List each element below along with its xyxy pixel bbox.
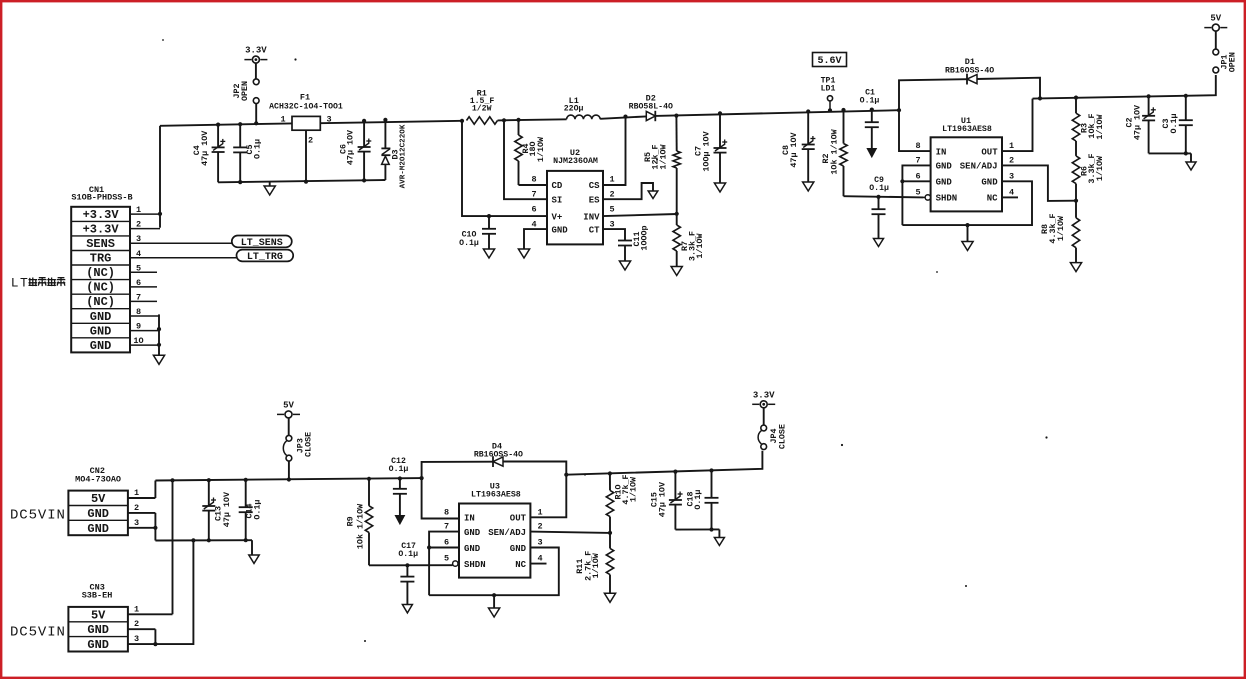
CN1 pin stubs and pin numbers 1-10 (130, 205, 237, 346)
jumper JP4 (CLOSE) (758, 424, 787, 449)
svg-text:F1: F1 (300, 93, 310, 103)
node R9 junction (367, 477, 371, 481)
wire U3 GND pins 7,6 tie (429, 532, 459, 596)
svg-text:OPEN: OPEN (1228, 52, 1238, 72)
svg-text:1O: 1O (133, 336, 143, 346)
resistor R11 2.7k 1/10W (575, 533, 614, 593)
node R2 junction (841, 108, 845, 112)
node C4 junction (216, 123, 220, 127)
power 3.3V node (JP4) (752, 390, 775, 408)
svg-text:LT_TRG: LT_TRG (247, 252, 283, 263)
capacitor C5 0.1u (233, 124, 262, 182)
svg-text:7: 7 (444, 522, 449, 532)
node INV R5 R7 junction (675, 212, 679, 216)
wire 3.3V to JP4 (763, 408, 765, 425)
svg-text:SEN/ADJ: SEN/ADJ (960, 162, 998, 172)
label DC5VIN (CN3) (10, 625, 66, 641)
capacitor C9 0.1u (869, 176, 889, 238)
ground below C8 (803, 182, 814, 191)
power 3.3V node (top, feeds JP2) (244, 46, 267, 64)
CN3 pin stubs and numbers (128, 604, 173, 644)
node rail CN3-gnd junction (191, 538, 195, 542)
svg-text:SI: SI (552, 195, 563, 205)
svg-text:1: 1 (537, 507, 542, 517)
wire JP2 to 3.3V bus (255, 104, 257, 124)
ground below R8 (1070, 263, 1081, 272)
wire C15C18 gnd stem (718, 529, 720, 537)
svg-text:47μ 1OV: 47μ 1OV (346, 129, 356, 165)
svg-text:(NC): (NC) (86, 281, 115, 295)
svg-text:RB16OSS-4O: RB16OSS-4O (474, 451, 523, 460)
svg-text:SEN/ADJ: SEN/ADJ (488, 528, 526, 538)
ground below U1 (962, 242, 973, 251)
node R10 R11 junction (608, 531, 612, 535)
wire SHDN rail (844, 196, 924, 197)
svg-text:GND: GND (90, 324, 112, 338)
node U1 IN junction (897, 108, 901, 112)
node R10 junction (608, 471, 612, 475)
wire U3 gnd stem (493, 595, 495, 608)
node D1 loop junction (1038, 96, 1042, 100)
svg-text:IN: IN (936, 147, 947, 157)
svg-text:1: 1 (136, 205, 141, 215)
ground below C7 (714, 183, 725, 192)
svg-text:4: 4 (537, 554, 542, 564)
capacitor C18 0.1u (686, 471, 719, 530)
svg-text:4: 4 (1009, 187, 1014, 197)
svg-text:INV: INV (583, 212, 600, 222)
svg-text:GND: GND (87, 522, 109, 536)
svg-text:CD: CD (552, 181, 563, 191)
svg-text:RBO58L-4O: RBO58L-4O (629, 103, 673, 112)
svg-text:SHDN: SHDN (936, 194, 958, 204)
svg-text:DC5VIN: DC5VIN (10, 507, 66, 523)
node CN2 pin3 junction (153, 526, 157, 530)
net flag LT_SENS (CN1 pin3) (232, 236, 292, 249)
U3 SHDN bubble (453, 561, 458, 566)
svg-text:7: 7 (916, 155, 921, 165)
power 5V node (JP3) (277, 400, 300, 418)
label LT expansion board (LT拡張基板) (11, 276, 66, 291)
capacitor C1 0.1u (860, 88, 880, 148)
wire CN1 pins 8,9,10 to ground (158, 314, 160, 355)
capacitor C6 47u 10V (339, 121, 372, 181)
op-amp U3 LT1963AES8 (LDO regulator) (444, 482, 543, 578)
svg-text:7: 7 (136, 292, 141, 302)
node C14 junction (244, 478, 248, 482)
node C18 junction (709, 468, 713, 472)
wire rail gnd stem (251, 540, 253, 555)
svg-text:(NC): (NC) (86, 266, 115, 280)
svg-text:LT1963AES8: LT1963AES8 (471, 491, 521, 500)
node rail C14 junction (244, 538, 248, 542)
wire lower ground rail (155, 539, 252, 541)
varistor D3 AVR-M2012C220K (381, 120, 407, 189)
wire JP3 to bus (288, 461, 290, 479)
svg-text:GND: GND (464, 544, 481, 554)
capacitor C7 100u 10V (694, 113, 728, 183)
svg-text:1/1OW: 1/1OW (591, 552, 601, 578)
resistor R3 10k 1/10W (1072, 98, 1105, 141)
connector CN3 S3B-EH (68, 582, 128, 652)
ground below C10 (483, 249, 494, 258)
svg-text:CS: CS (589, 181, 600, 191)
capacitor C12 0.1u (389, 457, 409, 516)
ground below R11 (604, 593, 615, 602)
svg-text:DC5VIN: DC5VIN (10, 625, 66, 641)
svg-text:4: 4 (136, 249, 141, 259)
node JP3 junction (287, 477, 291, 481)
ground (arrow) below C1 (867, 149, 876, 158)
svg-text:2: 2 (134, 503, 139, 513)
svg-text:5: 5 (444, 554, 449, 564)
U1 SHDN bubble (925, 195, 930, 200)
ground below C2 C3 (1186, 162, 1196, 170)
wire lower 3.3V bus (566, 451, 762, 475)
svg-text:(NC): (NC) (86, 295, 115, 309)
wire SHDN bubble stub (924, 196, 926, 198)
svg-text:NJM236OAM: NJM236OAM (553, 157, 598, 166)
wire U1 pin6 stub (902, 180, 930, 182)
node CN3 pin3 junction (153, 642, 157, 646)
wire D1 bypass loop (899, 78, 1040, 111)
svg-text:1: 1 (134, 604, 139, 614)
svg-text:O.1μ: O.1μ (459, 239, 479, 248)
svg-text:3: 3 (537, 538, 542, 548)
svg-text:OPEN: OPEN (240, 81, 250, 101)
capacitor C3 0.1u (1161, 96, 1193, 154)
node U3 pin6 tie junction (427, 545, 431, 549)
label DC5VIN (CN2) (10, 507, 66, 523)
node CN1 pin9 junction (157, 327, 161, 331)
svg-text:1: 1 (1009, 141, 1014, 151)
svg-text:5: 5 (916, 187, 921, 197)
svg-text:SENS: SENS (86, 237, 115, 251)
wire U3 bottom ground loop (429, 548, 559, 596)
wire 3.3V bus right of F1 (320, 121, 462, 123)
svg-text:O.1μ: O.1μ (1169, 113, 1179, 133)
svg-text:3: 3 (134, 634, 139, 644)
svg-text:5.6V: 5.6V (817, 56, 841, 67)
wire R1-left to U2 V+ rail (462, 121, 547, 216)
ground (arrow) below C12 (395, 516, 404, 525)
svg-text:7: 7 (531, 190, 536, 200)
wire U2 INV to R5/R7 (603, 214, 677, 216)
svg-text:1/1OW: 1/1OW (536, 136, 546, 162)
wire U1 GND pins 7,6 tie (902, 165, 930, 225)
node R6 R8 SEN junction (1074, 199, 1078, 203)
node R1 right junction (502, 118, 506, 122)
diode D1 RB160SS-40 (945, 57, 994, 84)
wire bus R1 to L1 (498, 119, 567, 120)
wire U2 GND pin4 (524, 229, 547, 249)
svg-text:3.3V: 3.3V (753, 390, 775, 400)
CN2 pin stubs and numbers (128, 488, 155, 528)
wire 3.3V bus left segment (160, 123, 292, 125)
svg-text:GND: GND (981, 178, 998, 188)
wire U3 NC stub (530, 563, 546, 565)
node U3 IN junction (420, 476, 424, 480)
svg-text:2: 2 (1009, 155, 1014, 165)
connector CN1 S10B-PHDSS-B (71, 185, 132, 353)
svg-text:6: 6 (136, 278, 141, 288)
node CS vertical junction (623, 115, 627, 119)
svg-text:1OOOp: 1OOOp (640, 225, 650, 250)
svg-text:GND: GND (87, 638, 109, 652)
svg-text:GND: GND (90, 339, 112, 353)
wire U3 OUT to 3.3V bus (530, 475, 566, 518)
node R1 left junction (460, 119, 464, 123)
diode D4 RB160SS-40 (474, 442, 523, 468)
svg-text:CLOSE: CLOSE (777, 424, 787, 449)
svg-text:S1OB-PHDSS-B: S1OB-PHDSS-B (71, 193, 132, 203)
svg-text:CT: CT (589, 225, 600, 235)
svg-text:5V: 5V (91, 608, 106, 622)
test point TP1 LD1 (821, 77, 836, 111)
wire D4 bypass loop (422, 461, 567, 478)
capacitor C14 0.1u (239, 480, 263, 540)
capacitor C8 47u 10V (781, 112, 816, 183)
jumper JP2 (OPEN) (232, 79, 259, 104)
wire rail ground stem (269, 182, 271, 186)
svg-text:1/1OW: 1/1OW (1095, 113, 1105, 139)
svg-text:47μ 1OV: 47μ 1OV (789, 131, 799, 167)
svg-text:22Oμ: 22Oμ (564, 105, 584, 114)
node U3 OUT junction (564, 473, 568, 477)
label 5.6V (boxed net label) (813, 53, 847, 68)
svg-text:ACH32C-1O4-TOO1: ACH32C-1O4-TOO1 (269, 103, 343, 112)
svg-text:5V: 5V (91, 492, 106, 506)
wire U1 SEN/ADJ to divider (1002, 165, 1076, 201)
svg-text:5: 5 (136, 263, 141, 273)
svg-text:1: 1 (280, 115, 285, 125)
node C3 junction (1184, 94, 1188, 98)
node C6 junction (362, 119, 366, 123)
node rail C6 junction (362, 178, 366, 182)
wire U2 ES to ground (603, 183, 653, 199)
wire CN2 pin1 up to 5V bus (154, 481, 156, 499)
svg-text:+3.3V: +3.3V (83, 208, 120, 222)
node U3 ground loop center (492, 593, 496, 597)
wire U3 bus into IN (422, 478, 459, 518)
svg-text:GND: GND (552, 225, 569, 235)
capacitor C13 47u 10V (202, 480, 232, 540)
op-amp U1 LT1963AES8 (LDO regulator) (916, 116, 1015, 211)
svg-text:3: 3 (1009, 171, 1014, 181)
wire U1 NC stub (1002, 196, 1018, 198)
node rail F1 pin2 junction (304, 180, 308, 184)
svg-text:1OOμ 1OV: 1OOμ 1OV (702, 130, 712, 171)
ground at U2 ES (648, 191, 658, 199)
resistor R5 12k 1/10W (643, 116, 680, 214)
resistor R2 10k 1/10W (821, 110, 847, 196)
svg-text:O.1μ: O.1μ (252, 500, 262, 520)
svg-text:V+: V+ (552, 212, 563, 222)
wire lower 5V bus (155, 478, 421, 480)
wire U1 OUT to 5.6V bus (1002, 99, 1033, 152)
node C2 junction (1147, 94, 1151, 98)
wire U1 gnd stem (967, 225, 969, 241)
connector CN2 MO4-730A0 (68, 466, 128, 536)
capacitor C11 1000p (618, 225, 650, 261)
node R4 top junction (516, 118, 520, 122)
wire U1 bottom ground loop (902, 181, 1032, 225)
svg-text:S3B-EH: S3B-EH (82, 591, 113, 601)
svg-text:47μ 1OV: 47μ 1OV (200, 130, 210, 166)
ground below CN1 (153, 355, 164, 364)
svg-text:3.3V: 3.3V (245, 46, 267, 56)
node U1 pin6 tie junction (900, 179, 904, 183)
svg-text:6: 6 (916, 171, 921, 181)
svg-text:IN: IN (464, 514, 475, 524)
wire 3.3V to JP2 (255, 63, 257, 79)
node rail C5 junction (238, 180, 242, 184)
node C5 junction (238, 122, 242, 126)
resistor R7 3.3k 1/10W (673, 214, 705, 267)
capacitor C4 47u 10V (192, 125, 225, 183)
svg-text:LT_SENS: LT_SENS (241, 238, 283, 249)
node CN1 pin1 junction (158, 212, 162, 216)
svg-text:TRG: TRG (90, 252, 112, 266)
svg-text:47μ 1OV: 47μ 1OV (657, 481, 667, 517)
capacitor C10 0.1u (459, 216, 496, 249)
svg-text:1: 1 (134, 488, 139, 498)
svg-text:LD1: LD1 (821, 85, 836, 94)
ground lower rail (249, 555, 259, 563)
svg-text:CLOSE: CLOSE (304, 432, 314, 457)
node C7 junction (718, 111, 722, 115)
svg-text:MO4-73OAO: MO4-73OAO (75, 474, 121, 484)
node CN1 pin10 junction (157, 343, 161, 347)
svg-text:3: 3 (609, 220, 614, 230)
ground below U2 pin4 (518, 249, 529, 258)
svg-text:NC: NC (515, 560, 526, 570)
wire U3 SHDN rail (369, 564, 453, 566)
svg-text:2: 2 (609, 190, 614, 200)
svg-text:O.1μ: O.1μ (860, 97, 880, 106)
filter F1 ACH32C-104-T001 (269, 93, 343, 146)
capacitor C15 47u 10V (650, 472, 683, 530)
svg-text:O.1μ: O.1μ (389, 465, 409, 474)
wire R4 to U2 CD (519, 184, 548, 186)
resistor R1 1.5 F 1/2W (467, 89, 498, 125)
svg-text:SHDN: SHDN (464, 560, 486, 570)
svg-text:6: 6 (531, 205, 536, 215)
resistor R6 3.3k 1/10W (1072, 141, 1105, 201)
svg-text:2: 2 (308, 136, 313, 146)
jumper JP1 (OPEN) (1213, 49, 1238, 73)
wire bus L1 to D2 (600, 116, 646, 118)
ground below R7 (671, 267, 682, 276)
wire CN3 pin1 up to bus (172, 480, 174, 614)
svg-text:6: 6 (444, 538, 449, 548)
svg-text:GND: GND (510, 544, 527, 554)
op-amp U2 NJM2360AM (switching regulator) (531, 148, 614, 244)
ground below C11 (619, 261, 630, 270)
wire U3 pin6 stub (429, 547, 459, 549)
node D3 junction (383, 118, 387, 122)
inductor L1 220u (564, 96, 600, 119)
node rail C13 junction (207, 538, 211, 542)
svg-text:ES: ES (589, 195, 600, 205)
svg-text:47μ 1OV: 47μ 1OV (1133, 104, 1143, 140)
svg-text:OUT: OUT (981, 147, 998, 157)
svg-text:3: 3 (134, 518, 139, 528)
svg-text:1/1OW: 1/1OW (1056, 215, 1066, 241)
svg-text:RB16OSS-4O: RB16OSS-4O (945, 66, 994, 75)
node D2 cathode junction (674, 114, 678, 118)
resistor R8 4.3k 1/10W (1040, 201, 1080, 263)
svg-text:1/1OW: 1/1OW (658, 143, 668, 169)
power 5V node (top right) (1204, 14, 1227, 32)
resistor R9 10k 1/10W (345, 479, 372, 566)
node C17 junction (405, 563, 409, 567)
svg-text:GND: GND (87, 507, 109, 521)
svg-text:OUT: OUT (510, 514, 527, 524)
svg-text:8: 8 (531, 175, 536, 185)
jumper JP3 (CLOSE) (283, 432, 313, 461)
wire C2 C3 ground rail (1149, 152, 1191, 154)
ground below C9 (874, 239, 884, 247)
svg-text:1Ok 1/1OW: 1Ok 1/1OW (829, 128, 839, 174)
ground below C15 C18 (714, 538, 724, 546)
svg-text:1/1OW: 1/1OW (629, 476, 639, 502)
svg-text:NC: NC (987, 194, 998, 204)
wire 5V to JP3 (288, 418, 290, 435)
svg-text:O.1μ: O.1μ (693, 490, 703, 510)
node C10 junction (487, 214, 491, 218)
svg-text:8: 8 (444, 507, 449, 517)
svg-text:1/1OW: 1/1OW (1095, 155, 1105, 181)
node C12 junction (398, 476, 402, 480)
svg-text:8: 8 (916, 141, 921, 151)
wire 5.6V bus (1033, 75, 1216, 99)
ground below C17 (402, 605, 412, 613)
wire C15 C18 ground rail (675, 528, 719, 530)
capacitor C17 0.1u (398, 542, 418, 605)
svg-text:2: 2 (537, 522, 542, 532)
speck (162, 39, 1048, 642)
svg-text:1/1OW: 1/1OW (695, 232, 705, 258)
svg-text:2: 2 (134, 619, 139, 629)
ground below U3 (489, 608, 500, 617)
wire U2 CS to bus (603, 117, 626, 185)
node C13 junction (207, 478, 211, 482)
wire CN2 pins2,3 tie (154, 513, 156, 541)
resistor R10 4.7k 1/10W (606, 474, 638, 533)
wire U3 SEN/ADJ to divider (530, 532, 610, 533)
diode D2 RB058L-40 (629, 94, 673, 122)
svg-text:GND: GND (87, 623, 109, 637)
wire 5V to JP1 (1215, 31, 1217, 49)
svg-text:5: 5 (609, 205, 614, 215)
svg-text:AVR-M2O12C22OK: AVR-M2O12C22OK (400, 124, 408, 188)
wire C2C3 gnd stem (1190, 153, 1192, 162)
node JP2-bus junction (254, 121, 258, 125)
svg-text:47μ 1OV: 47μ 1OV (222, 491, 232, 527)
node U1 ground loop center (965, 223, 969, 227)
node C8 junction (806, 109, 810, 113)
ground F1 cluster (264, 186, 275, 195)
wire CN3 pins2,3 tie and to rail (155, 540, 193, 644)
resistor R4 180 1/10W (515, 120, 546, 185)
svg-text:5V: 5V (1210, 14, 1221, 24)
wire F1 pin2 down (305, 130, 307, 182)
svg-text:4: 4 (531, 220, 536, 230)
node TP1 junction (828, 108, 832, 112)
node C18 rail junction (709, 527, 713, 531)
svg-text:R9: R9 (345, 516, 355, 526)
